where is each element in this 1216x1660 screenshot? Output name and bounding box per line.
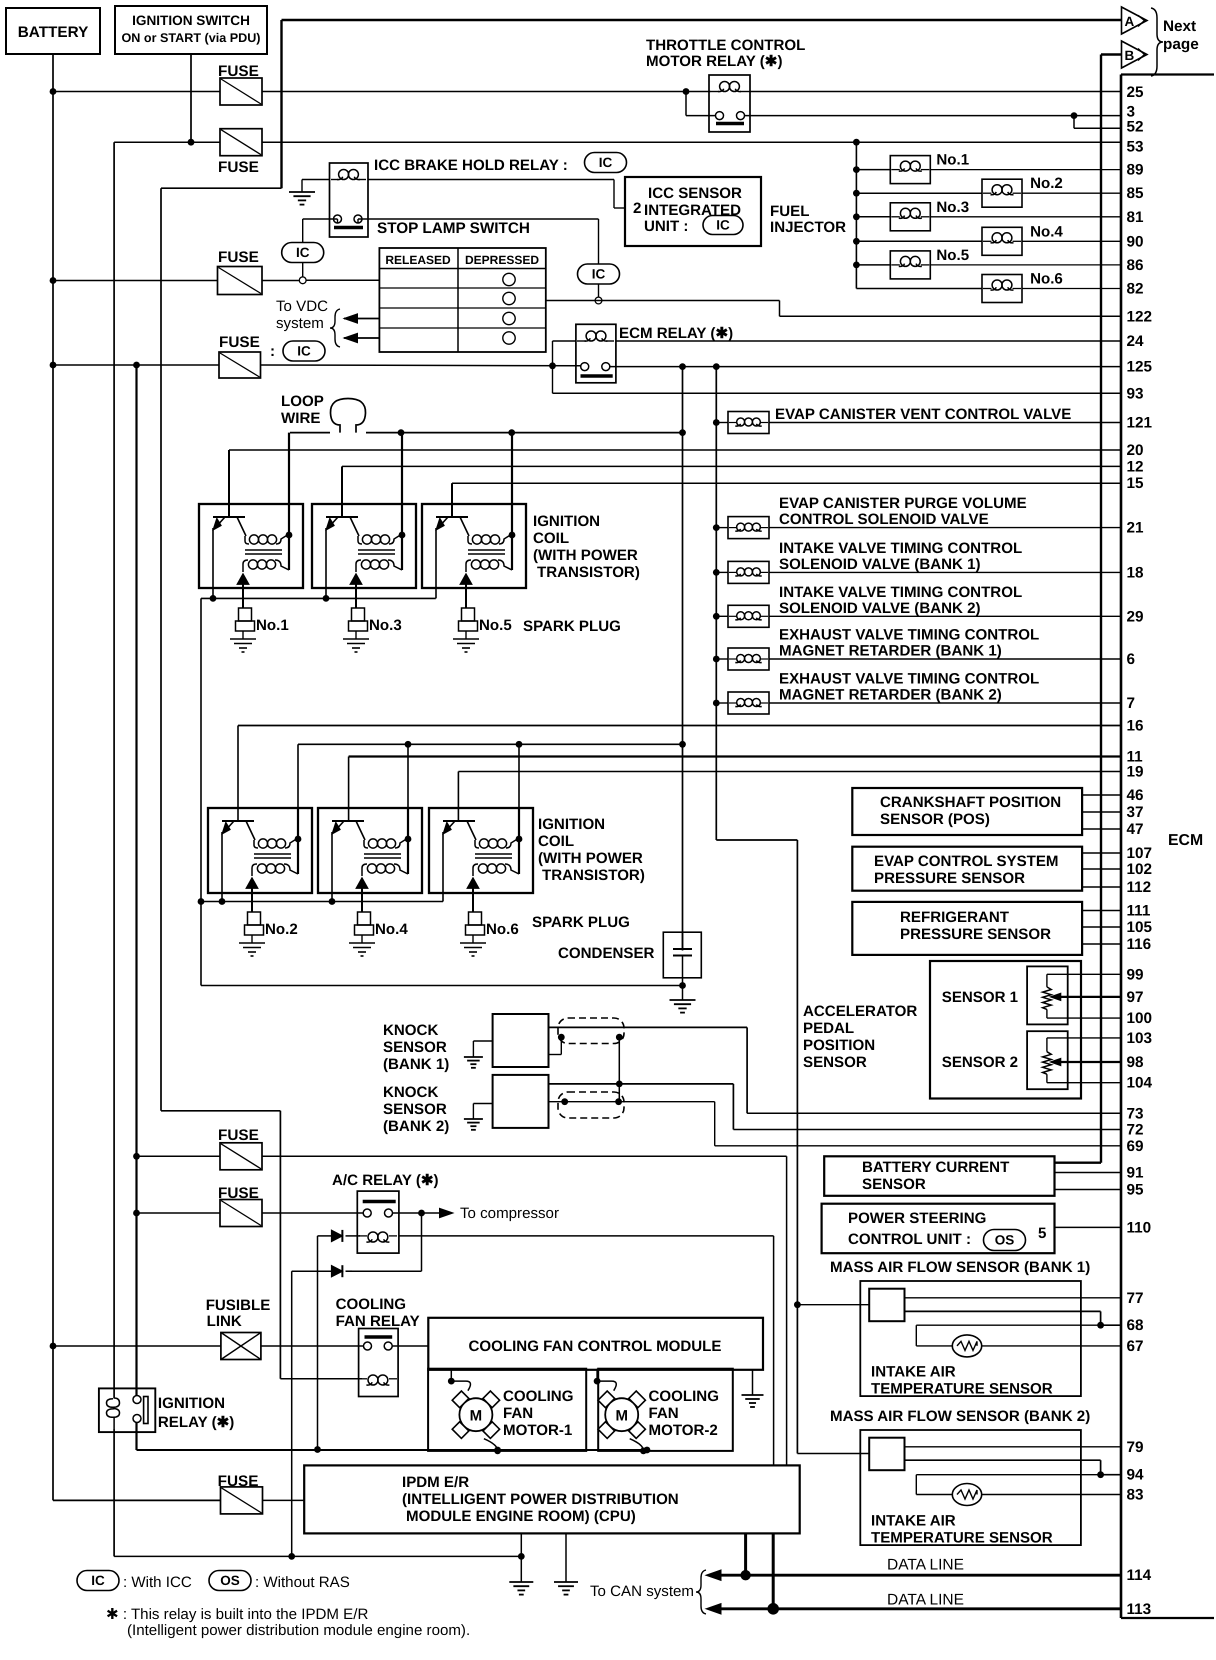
svg-text:83: 83	[1127, 1487, 1144, 1504]
wire motor return rail	[137, 1449, 648, 1451]
node diode1 return	[314, 1446, 321, 1453]
wire vertical 716 (solenoid feed)	[716, 367, 797, 1454]
svg-text:No.5: No.5	[479, 617, 512, 634]
wire throttle relay contact feed	[686, 92, 716, 116]
svg-text:SOLENOID VALVE (BANK 2): SOLENOID VALVE (BANK 2)	[779, 600, 981, 617]
wire ignition relay coil return row	[114, 1429, 521, 1556]
wire base No.1	[228, 450, 230, 517]
label cooling fan motor-1	[503, 1388, 573, 1439]
diode No.1	[237, 574, 249, 608]
ignition coil No.4 box	[318, 808, 422, 893]
spark plug No.2	[239, 912, 265, 956]
svg-text::: :	[270, 343, 275, 360]
svg-text:INTAKE AIR: INTAKE AIR	[871, 1513, 956, 1530]
wire lower coil power row	[298, 744, 683, 808]
wire base No.5	[451, 483, 453, 517]
svg-text:85: 85	[1127, 185, 1145, 202]
fuse F5	[218, 1127, 262, 1170]
ground knock2	[464, 1118, 483, 1120]
svg-text:POSITION: POSITION	[803, 1037, 875, 1054]
svg-text:UNIT :: UNIT :	[644, 218, 688, 235]
label intake air temp MASS AIR FLOW SENSOR (BANK 2)	[871, 1513, 1053, 1547]
svg-text:PRESSURE SENSOR: PRESSURE SENSOR	[874, 870, 1025, 887]
svg-text:112: 112	[1127, 879, 1152, 896]
wire pin52 stub	[1074, 116, 1121, 129]
wire coil4 right feed	[407, 744, 409, 808]
condenser	[558, 932, 701, 1000]
box cooling fan control module	[428, 1318, 763, 1370]
wire VDC arrow 2	[344, 333, 379, 342]
svg-text:73: 73	[1127, 1105, 1144, 1122]
svg-text:RELAY (✱): RELAY (✱)	[158, 1414, 234, 1431]
svg-text:: With ICC: : With ICC	[123, 1574, 192, 1591]
svg-text:2: 2	[633, 200, 641, 217]
svg-text:IC: IC	[297, 344, 311, 359]
svg-text:COOLING: COOLING	[336, 1296, 406, 1313]
next page arrow B	[1122, 41, 1148, 68]
svg-text:REFRIGERANT: REFRIGERANT	[900, 909, 1010, 926]
app SENSOR 1	[942, 966, 1121, 1024]
svg-text:STOP LAMP SWITCH: STOP LAMP SWITCH	[377, 220, 530, 237]
svg-text:89: 89	[1127, 162, 1144, 179]
svg-text:113: 113	[1127, 1601, 1152, 1618]
wire ignition relay contact bus	[135, 1423, 137, 1451]
node motor2 return	[644, 1447, 651, 1454]
svg-text:105: 105	[1127, 919, 1153, 936]
diode No.5	[460, 574, 472, 608]
wire next-page A riser	[282, 20, 1122, 188]
svg-text:DATA LINE: DATA LINE	[887, 1592, 964, 1609]
ignition coil No.6 box	[429, 808, 533, 893]
wire thermistor out MASS AIR FLOW SENSOR (BANK 2)	[982, 1494, 1121, 1496]
wire coil6 right feed	[518, 744, 520, 808]
wire maf signal MASS AIR FLOW SENSOR (BANK 2)	[905, 1446, 1122, 1448]
diode No.6	[467, 878, 479, 912]
svg-text:SENSOR: SENSOR	[383, 1039, 447, 1056]
solenoid valve EVAP CANISTER PURGE VOLUME CONTROL SOLENOID VALVE	[713, 495, 1121, 538]
fuse F2	[218, 129, 262, 176]
svg-text:COIL: COIL	[533, 530, 569, 547]
svg-text:6: 6	[1127, 651, 1136, 668]
svg-text:86: 86	[1127, 257, 1144, 274]
svg-text:46: 46	[1127, 787, 1144, 804]
node gnd row diode2	[288, 1553, 295, 1560]
thermistor MASS AIR FLOW SENSOR (BANK 1)	[952, 1335, 981, 1357]
svg-text:116: 116	[1127, 936, 1152, 953]
svg-text:114: 114	[1127, 1567, 1152, 1584]
svg-text:IPDM E/R: IPDM E/R	[402, 1474, 469, 1491]
coil windings No.6	[473, 808, 522, 876]
svg-text:SENSOR 2: SENSOR 2	[942, 1054, 1018, 1071]
wire riser to x161 drop	[161, 188, 282, 1379]
svg-text:MOTOR-1: MOTOR-1	[503, 1422, 572, 1439]
svg-text:SPARK PLUG: SPARK PLUG	[532, 914, 630, 931]
svg-text:(BANK 2): (BANK 2)	[383, 1118, 449, 1135]
connector circle (right)	[595, 297, 602, 304]
coil windings No.4	[362, 808, 411, 876]
wire fuse2 row / pin53 row	[114, 141, 1121, 143]
shield knock2	[558, 1092, 624, 1118]
wire pin16 row	[238, 726, 1121, 822]
svg-text:FAN: FAN	[503, 1405, 533, 1422]
diode No.4	[356, 878, 368, 912]
label cooling fan motor-2	[649, 1388, 719, 1439]
ignition coil No.1 box	[199, 504, 303, 588]
svg-text:IGNITION: IGNITION	[533, 513, 600, 530]
relay ECM	[576, 324, 733, 383]
box accelerator pedal position sensor	[930, 961, 1081, 1099]
wire fuse5 row to AC relay	[137, 1212, 364, 1214]
node rail-682	[679, 429, 686, 436]
svg-text:No.2: No.2	[265, 921, 298, 938]
svg-text:IGNITION SWITCH: IGNITION SWITCH	[132, 13, 250, 28]
label accelerator pedal position sensor	[803, 1003, 917, 1071]
wire injector bus	[856, 142, 982, 288]
svg-text:67: 67	[1127, 1338, 1144, 1355]
wire fuse4 row	[137, 1156, 787, 1465]
svg-text:95: 95	[1127, 1182, 1145, 1199]
app SENSOR 2	[942, 1031, 1121, 1089]
svg-text:COIL: COIL	[538, 833, 574, 850]
diode No.3	[350, 574, 362, 608]
wire knock2 signal to pin72	[549, 1084, 1122, 1130]
svg-text:WIRE: WIRE	[281, 410, 320, 427]
label IC pill (VDC)	[270, 341, 325, 361]
svg-text:98: 98	[1127, 1054, 1145, 1071]
wire pin20 row	[229, 449, 1121, 451]
svg-text:37: 37	[1127, 804, 1144, 821]
svg-text:THROTTLE CONTROL: THROTTLE CONTROL	[646, 37, 805, 54]
svg-text:97: 97	[1127, 989, 1144, 1006]
svg-text:No.4: No.4	[1030, 223, 1063, 240]
svg-text:72: 72	[1127, 1122, 1144, 1139]
svg-text:82: 82	[1127, 281, 1144, 298]
wire x114 drop from fuse2 row	[113, 142, 115, 1398]
wire ecm relay coil left to pin93	[553, 341, 1122, 393]
svg-text:(BANK 1): (BANK 1)	[383, 1056, 449, 1073]
spark plug No.1	[230, 608, 256, 652]
fuse F4	[219, 334, 261, 378]
svg-text:COOLING: COOLING	[649, 1388, 719, 1405]
node row744-682	[679, 741, 686, 748]
svg-text:47: 47	[1127, 821, 1144, 838]
svg-text:CONDENSER: CONDENSER	[558, 945, 655, 962]
node drain-knock2top	[616, 1081, 623, 1088]
wire lower emitter rail	[201, 901, 443, 903]
node condenser ground junction	[679, 982, 686, 989]
svg-text:MAGNET RETARDER (BANK 1): MAGNET RETARDER (BANK 1)	[779, 643, 1002, 660]
wire knock1 return	[549, 1037, 562, 1054]
svg-text:LINK: LINK	[207, 1313, 242, 1330]
svg-text:104: 104	[1127, 1075, 1153, 1092]
node f6 feed	[133, 1210, 140, 1217]
diode D2	[332, 1265, 353, 1277]
node maf1 feed	[794, 1301, 801, 1308]
label ignition coil lower	[538, 816, 645, 884]
fuel injector No.3	[853, 199, 1121, 231]
svg-text:24: 24	[1127, 333, 1145, 350]
ground fan module	[742, 1370, 764, 1407]
legend IC pill	[77, 1571, 192, 1592]
box MASS AIR FLOW SENSOR (BANK 1)	[830, 1259, 1090, 1396]
relay cooling fan	[336, 1296, 420, 1397]
svg-text:77: 77	[1127, 1290, 1144, 1307]
spark plug No.4	[349, 912, 375, 956]
svg-text:CRANKSHAFT POSITION: CRANKSHAFT POSITION	[880, 794, 1061, 811]
svg-text:81: 81	[1127, 209, 1145, 226]
legend OS pill	[209, 1571, 350, 1592]
box crankshaft position sensor	[852, 788, 1121, 835]
box refrigerant pressure sensor	[852, 902, 1121, 955]
svg-text:111: 111	[1127, 903, 1151, 920]
wire IPDM ground 2	[554, 1533, 578, 1594]
svg-text:CONTROL UNIT :: CONTROL UNIT :	[848, 1231, 971, 1248]
svg-text:69: 69	[1127, 1138, 1144, 1155]
node row744-coil6	[516, 741, 523, 748]
label intake air temp MASS AIR FLOW SENSOR (BANK 1)	[871, 1364, 1053, 1398]
svg-text:FAN RELAY: FAN RELAY	[336, 1313, 420, 1330]
wire thermistor out MASS AIR FLOW SENSOR (BANK 1)	[982, 1345, 1121, 1347]
node injector bus top	[853, 139, 860, 146]
fusible link	[206, 1297, 271, 1360]
svg-text:IGNITION: IGNITION	[158, 1395, 225, 1412]
node vert716 top	[713, 363, 720, 370]
svg-text:M: M	[615, 1408, 628, 1425]
label ignition coil upper	[533, 513, 640, 581]
maf hot film element MASS AIR FLOW SENSOR (BANK 2)	[797, 1438, 904, 1471]
node ignition-fuse2	[188, 139, 195, 146]
node row744-coil4	[405, 741, 412, 748]
next page brace	[1151, 8, 1163, 76]
wire fusible row	[53, 1345, 364, 1347]
svg-text:No.3: No.3	[369, 617, 402, 634]
knock sensor bank1 box	[383, 1014, 549, 1073]
svg-text:KNOCK: KNOCK	[383, 1022, 438, 1039]
wire pin24 row	[616, 340, 1121, 342]
svg-text:RELEASED: RELEASED	[385, 253, 451, 267]
svg-text:LOOP: LOOP	[281, 393, 324, 410]
svg-text:BATTERY: BATTERY	[18, 24, 89, 41]
svg-text:SOLENOID VALVE (BANK 1): SOLENOID VALVE (BANK 1)	[779, 556, 981, 573]
spark plug No.6	[460, 912, 486, 956]
wire vertical 682 (coil power)	[682, 367, 684, 951]
relay ignition	[99, 1388, 234, 1432]
wire CAN stub 2	[772, 1533, 775, 1608]
ECM connector	[1121, 75, 1214, 1619]
svg-text:68: 68	[1127, 1317, 1145, 1334]
svg-text:25: 25	[1127, 84, 1145, 101]
node emitter2	[219, 898, 226, 905]
svg-text:122: 122	[1127, 308, 1153, 325]
svg-text:COOLING: COOLING	[503, 1388, 573, 1405]
power transistor No.6	[443, 821, 476, 902]
svg-text:INTAKE AIR: INTAKE AIR	[871, 1364, 956, 1381]
svg-text:MASS AIR FLOW SENSOR (BANK 2): MASS AIR FLOW SENSOR (BANK 2)	[830, 1408, 1090, 1425]
svg-text:MODULE ENGINE ROOM) (CPU): MODULE ENGINE ROOM) (CPU)	[406, 1508, 636, 1525]
svg-text:PRESSURE SENSOR: PRESSURE SENSOR	[900, 926, 1051, 943]
wire ignition switch feed	[190, 54, 192, 142]
svg-text:(Intelligent power distributio: (Intelligent power distribution module e…	[127, 1622, 470, 1639]
svg-text:110: 110	[1127, 1219, 1152, 1236]
svg-text:M: M	[470, 1408, 483, 1425]
node battery-fuse3b	[50, 362, 57, 369]
svg-text:No.3: No.3	[936, 199, 969, 216]
svg-text:5: 5	[1038, 1225, 1046, 1242]
power transistor No.2	[222, 821, 255, 902]
node vert682 top	[679, 363, 686, 370]
svg-text:SENSOR: SENSOR	[803, 1054, 867, 1071]
wire maf ground MASS AIR FLOW SENSOR (BANK 2)	[905, 1460, 1122, 1494]
node can1	[740, 1570, 750, 1580]
next page arrow A	[1122, 7, 1148, 34]
svg-text:No.2: No.2	[1030, 175, 1063, 192]
box cooling fan MOTOR-2	[598, 1369, 733, 1451]
legend relay note	[106, 1606, 470, 1639]
svg-text:COOLING FAN CONTROL MODULE: COOLING FAN CONTROL MODULE	[469, 1338, 722, 1355]
svg-text:ECM: ECM	[1168, 832, 1203, 849]
wire stop lamp row2 out to pin122	[546, 301, 1121, 317]
svg-text:ON or START (via PDU): ON or START (via PDU)	[121, 31, 260, 45]
svg-text:52: 52	[1127, 118, 1144, 135]
svg-text:ACCELERATOR: ACCELERATOR	[803, 1003, 917, 1020]
label fuel injector	[770, 203, 846, 236]
svg-text:Next: Next	[1163, 18, 1196, 35]
thermistor MASS AIR FLOW SENSOR (BANK 2)	[952, 1484, 981, 1506]
node gnd row ipdm	[518, 1553, 525, 1560]
svg-text:No.5: No.5	[936, 247, 969, 264]
wire brake relay contact-left to stop lamp row	[303, 219, 338, 280]
svg-text:121: 121	[1127, 415, 1153, 432]
box ICC sensor integrated unit	[625, 177, 761, 246]
svg-text:EVAP CONTROL SYSTEM: EVAP CONTROL SYSTEM	[874, 853, 1059, 870]
wire brake relay coil to ICC unit	[368, 180, 625, 209]
ignition switch box	[115, 6, 267, 54]
node compressor branch	[418, 1210, 425, 1217]
solenoid valve INTAKE VALVE TIMING CONTROL SOLENOID VALVE (BANK 1)	[713, 540, 1121, 584]
wire maf ground MASS AIR FLOW SENSOR (BANK 1)	[905, 1311, 1122, 1346]
wire pin25 row	[750, 91, 1121, 93]
fuel injector No.5	[853, 247, 1121, 279]
svg-text:IC: IC	[296, 245, 310, 260]
node emitter rail junction	[198, 898, 205, 905]
valve EVAP canister vent control	[713, 406, 1121, 434]
svg-text:EXHAUST VALVE TIMING CONTROL: EXHAUST VALVE TIMING CONTROL	[779, 627, 1039, 644]
svg-text:CONTROL SOLENOID VALVE: CONTROL SOLENOID VALVE	[779, 511, 989, 528]
svg-text:IGNITION: IGNITION	[538, 816, 605, 833]
svg-text:94: 94	[1127, 1467, 1145, 1484]
box battery current sensor	[824, 1156, 1121, 1196]
node shield2 left	[561, 1098, 568, 1105]
svg-text:A: A	[1125, 14, 1135, 29]
node f5 feed	[133, 1153, 140, 1160]
svg-text:(WITH POWER: (WITH POWER	[538, 850, 643, 867]
svg-text:DEPRESSED: DEPRESSED	[465, 253, 539, 267]
svg-text:OS: OS	[995, 1233, 1015, 1248]
wire pin3 row	[745, 115, 1122, 117]
power transistor No.3	[326, 517, 359, 598]
wire fan relay contact to module	[393, 1345, 429, 1347]
wire data line pin114	[706, 1570, 1121, 1580]
svg-text:BATTERY CURRENT: BATTERY CURRENT	[862, 1159, 1010, 1176]
svg-text:ICC BRAKE HOLD RELAY :: ICC BRAKE HOLD RELAY :	[374, 157, 568, 174]
node rail-coil2	[398, 429, 405, 436]
node rail-coil3	[508, 429, 515, 436]
wire fuse3 row to stop lamp switch	[53, 279, 379, 281]
svg-text:(WITH POWER: (WITH POWER	[533, 547, 638, 564]
label to VDC system	[276, 298, 340, 347]
svg-text:103: 103	[1127, 1030, 1153, 1047]
wire fuse6 row to IPDM	[262, 1499, 304, 1501]
node ecm relay contact-left	[549, 362, 556, 369]
power transistor No.1	[213, 517, 246, 598]
node can2	[767, 1603, 779, 1615]
label IC pill (right)	[578, 264, 620, 284]
solenoid valve INTAKE VALVE TIMING CONTROL SOLENOID VALVE (BANK 2)	[713, 584, 1121, 628]
svg-text:No.6: No.6	[486, 921, 519, 938]
svg-text:No.6: No.6	[1030, 271, 1063, 288]
wire fan relay coil feed	[280, 1378, 362, 1380]
motor MOTOR-2	[594, 1369, 647, 1455]
ground condenser	[670, 999, 696, 1001]
svg-text:FUSE: FUSE	[218, 159, 259, 176]
fuel injector No.2	[853, 175, 1121, 207]
svg-text:system: system	[276, 315, 324, 332]
svg-text:KNOCK: KNOCK	[383, 1084, 438, 1101]
wire x137 bus (motor return)	[135, 365, 137, 1396]
node battery-fuse3a	[50, 277, 57, 284]
fuel injector No.6	[982, 271, 1121, 303]
svg-text:IC: IC	[592, 267, 606, 282]
svg-text:19: 19	[1127, 764, 1144, 781]
svg-text:IC: IC	[91, 1573, 105, 1588]
svg-text:SPARK PLUG: SPARK PLUG	[523, 618, 621, 635]
coil windings No.2	[252, 808, 301, 876]
wire knock1 signal to pin73	[549, 1027, 1122, 1113]
svg-text:20: 20	[1127, 442, 1144, 459]
box power steering control unit	[822, 1204, 1121, 1254]
ground knock1	[464, 1056, 483, 1058]
coil windings No.1	[243, 433, 292, 572]
ignition coil No.3 box	[312, 504, 416, 588]
coil windings No.5	[466, 433, 515, 572]
spark plug No.3	[343, 608, 369, 652]
wire shield drain	[618, 1037, 620, 1102]
svg-text:100: 100	[1127, 1010, 1153, 1027]
svg-text:page: page	[1163, 36, 1199, 53]
node shield1 right	[616, 1034, 623, 1041]
wire CAN stub 1	[744, 1533, 747, 1575]
fuel injector No.4	[853, 223, 1121, 255]
wire upper emitter rail	[201, 598, 683, 985]
svg-text:ECM RELAY (✱): ECM RELAY (✱)	[619, 325, 733, 342]
svg-text:FUEL: FUEL	[770, 203, 809, 220]
label IC pill (left)	[282, 243, 324, 263]
node throttle relay drop	[683, 88, 690, 95]
coil windings No.3	[356, 433, 405, 572]
wire upper coil rail	[290, 432, 683, 434]
diode D1	[332, 1230, 361, 1242]
node shield1 left	[558, 1034, 565, 1041]
box MASS AIR FLOW SENSOR (BANK 2)	[830, 1408, 1090, 1545]
svg-text:ICC SENSOR: ICC SENSOR	[648, 185, 742, 202]
svg-text:7: 7	[1127, 695, 1136, 712]
svg-text:FUSE: FUSE	[218, 1127, 259, 1144]
node shield2 right	[615, 1098, 622, 1105]
ground icc brake relay	[289, 180, 330, 205]
wire base No.3	[341, 466, 343, 517]
svg-text:IC: IC	[599, 155, 613, 170]
svg-text:12: 12	[1127, 458, 1144, 475]
